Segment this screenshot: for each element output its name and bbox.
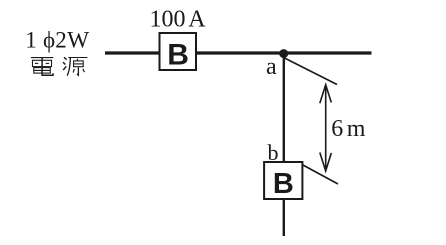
svg-text:m: m [347,116,366,142]
arrowhead up [320,85,332,104]
svg-text:B: B [167,38,189,71]
breaker B (100 A) box [160,33,197,70]
kanji DEN (electricity) drawn as strokes [31,58,53,76]
svg-text:a: a [266,54,277,80]
kanji GEN (source) drawn as strokes [63,57,88,75]
dimension arrow shaft [325,85,327,171]
svg-text:1: 1 [25,27,37,52]
node a junction dot [279,49,288,58]
dimension leader bottom (at breaker b) [303,165,338,184]
svg-text:6: 6 [331,116,343,142]
svg-text:100: 100 [150,7,186,33]
breaker B (branch) box [264,162,302,199]
dimension leader top (from node a) [284,58,338,85]
wire: vertical branch from node a [283,53,285,236]
svg-text:A: A [188,7,206,33]
svg-text:W: W [67,27,89,52]
svg-text:2: 2 [55,27,67,52]
wire: main horizontal feeder [105,51,372,54]
svg-text:ϕ: ϕ [43,27,55,52]
arrowhead down [320,153,332,172]
svg-text:B: B [273,168,294,200]
